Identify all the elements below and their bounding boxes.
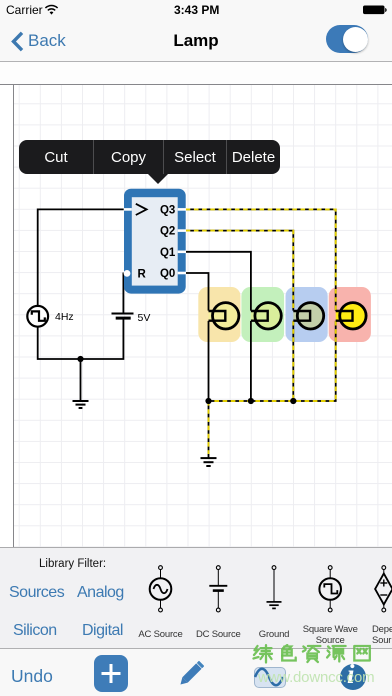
- svg-text:R: R: [138, 268, 147, 280]
- svg-text:DC Source: DC Source: [196, 629, 241, 640]
- svg-text:Q3: Q3: [160, 205, 175, 217]
- lamp L4 symbol (lit): [336, 303, 366, 329]
- library icon: AC Source: [150, 566, 172, 612]
- ground symbol left: [73, 401, 89, 408]
- wire: Q1 to lamp L2: [186, 252, 251, 311]
- junction node bus 3: [290, 398, 296, 404]
- svg-text:Ground: Ground: [259, 629, 290, 640]
- wire: Q3 to lamp L4: [186, 209, 336, 310]
- document border top: [0, 84, 392, 86]
- lamp L3 symbol: [293, 303, 323, 329]
- lamp L1 selection box (orange): [198, 287, 240, 342]
- lamp L1 symbol: [209, 303, 239, 329]
- context menu: [19, 140, 280, 174]
- selected wire highlight: lamp L3 bottom: [292, 321, 294, 401]
- wire: clock input to AC source: [38, 209, 124, 306]
- lamp L4 selection box (red): [329, 287, 371, 342]
- junction node at left ground: [77, 356, 83, 362]
- clock chevron: [136, 204, 147, 215]
- svg-text:Depend: Depend: [372, 624, 392, 635]
- wire: Q2 to lamp L3: [186, 231, 294, 311]
- char zi (resource): [303, 646, 321, 662]
- junction node bus 1: [205, 398, 211, 404]
- pin slot Q2: [178, 229, 186, 232]
- wire: Q0 to lamp L1: [186, 273, 209, 311]
- info button: [340, 664, 366, 690]
- lamp L2 selection box (green): [241, 287, 284, 342]
- pin slot Q3: [178, 208, 186, 211]
- counter chip U1: [124, 189, 186, 294]
- selected wire highlight: Q3 net: [186, 209, 336, 310]
- svg-text:Q1: Q1: [160, 247, 176, 259]
- svg-text:5V: 5V: [138, 312, 151, 324]
- char wang (net): [354, 646, 370, 661]
- library icon: Square Wave Source: [319, 566, 341, 612]
- wire: R input to battery positive: [123, 273, 125, 313]
- junction node bus 2: [248, 398, 254, 404]
- selected wire highlight: lamp L4 bottom and bus: [209, 321, 336, 401]
- wire: lamp L4 bottom and ground bus: [209, 321, 336, 401]
- char yuan (source): [327, 646, 346, 662]
- pin slot clock: [124, 208, 132, 211]
- svg-text:Q0: Q0: [160, 268, 175, 280]
- wire: AC source bottom to battery negative: [38, 318, 124, 359]
- wire: lamp L2 bottom to bus: [250, 321, 252, 401]
- pin R bubble: [124, 270, 131, 277]
- wire: lamp L3 bottom to bus: [292, 321, 294, 401]
- svg-text:Square Wave: Square Wave: [303, 624, 358, 635]
- wire: lamp L1 bottom to bus: [208, 321, 210, 401]
- pin slot Q0: [178, 272, 186, 275]
- char se (color): [282, 645, 296, 661]
- pin slot Q1: [178, 251, 186, 254]
- svg-text:4Hz: 4Hz: [55, 311, 74, 323]
- document border left: [13, 84, 15, 547]
- selected wire highlight: Q2 net: [186, 231, 294, 311]
- lamp L2 symbol: [251, 303, 281, 329]
- ground symbol bottom: [201, 458, 217, 466]
- battery V2 5V: [112, 312, 151, 324]
- lamp L3 selection box (blue): [286, 287, 328, 342]
- pencil icon: [175, 657, 206, 694]
- wire: bus to bottom ground: [208, 401, 210, 458]
- svg-text:Q2: Q2: [160, 226, 175, 238]
- canvas grid area: [13, 84, 392, 547]
- watermark: [252, 644, 376, 666]
- library icon: Ground: [267, 566, 282, 609]
- svg-text:AC Source: AC Source: [138, 629, 182, 640]
- library icon: DC Source: [209, 566, 227, 612]
- char lv (green): [254, 645, 273, 662]
- wire: ground stub left: [80, 359, 82, 401]
- selected wire highlight: ground drop: [208, 401, 210, 454]
- square wave source V1 4Hz: [27, 306, 73, 327]
- library icon: Dependent Source (clipped): [375, 566, 392, 612]
- scope button: [254, 667, 286, 688]
